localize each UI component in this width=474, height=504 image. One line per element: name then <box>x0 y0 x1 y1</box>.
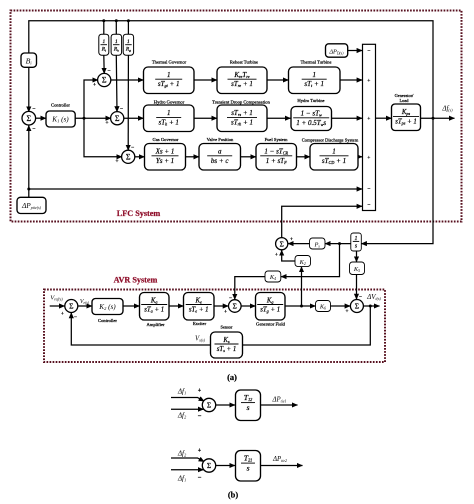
wire droop tap to 1/Rt <box>103 21 105 34</box>
svg-text:sTe + 1: sTe + 1 <box>189 307 209 314</box>
wire Generator Field to K6 <box>285 305 316 307</box>
wire Exciter to field summer <box>214 305 228 307</box>
svg-text:Ys + 1: Ys + 1 <box>156 157 174 165</box>
Thermal Governor <box>144 67 195 94</box>
svg-text:Σ: Σ <box>280 239 284 248</box>
svg-text:Gas Governor: Gas Governor <box>153 137 179 142</box>
Gas Governor <box>145 144 186 171</box>
wire thermal summer to Thermal Governor <box>110 79 143 81</box>
Sensor <box>211 332 243 358</box>
wire Thermal Governor to Reheat Turbine <box>194 79 217 81</box>
wire T12 output dPtie1 <box>261 404 298 406</box>
wire tie-line feedback to power summing block <box>27 188 362 191</box>
svg-text:−: − <box>107 69 110 75</box>
wire terminal voltage summer to dV output <box>363 305 379 308</box>
wire droop tap to 1/Rg <box>127 21 129 34</box>
wire top frequency feedback from output node to B_i and droop taps <box>29 19 433 118</box>
terminal voltage summer <box>350 300 363 313</box>
svg-text:1: 1 <box>167 71 171 79</box>
wire 1/s to Ps <box>325 242 351 245</box>
svg-text:sTre + 1: sTre + 1 <box>231 80 253 88</box>
synchronizing coefficient Ps <box>310 238 326 249</box>
Reheat Turbine <box>217 67 267 94</box>
svg-text:Σ: Σ <box>207 461 211 470</box>
svg-text:−: − <box>367 49 370 55</box>
svg-text:Σ: Σ <box>207 401 211 410</box>
Compressor Discharge System <box>310 144 358 171</box>
Transient Droop Compensation <box>217 105 267 132</box>
svg-text:sTps + 1: sTps + 1 <box>395 118 417 125</box>
svg-text:+: + <box>367 155 370 161</box>
svg-text:1: 1 <box>312 71 316 79</box>
summer gas <box>122 150 135 163</box>
svg-text:1 − sTw: 1 − sTw <box>301 110 322 118</box>
wire tie summer to T21 block <box>216 465 235 467</box>
wire tie summer to T12 block <box>216 404 235 406</box>
svg-text:Reheat Turbine: Reheat Turbine <box>230 60 258 65</box>
droop gain 1/Rh <box>111 34 122 55</box>
svg-text:+: + <box>105 120 108 126</box>
coupling gain K4 <box>265 271 281 282</box>
svg-text:−: − <box>131 145 134 151</box>
wire K2 to coupling summer <box>282 250 295 261</box>
wire df1 into tie summer (b) <box>171 469 204 471</box>
svg-text:Xs + 1: Xs + 1 <box>155 148 175 156</box>
svg-text:sTh + 1: sTh + 1 <box>158 118 178 126</box>
svg-text:1: 1 <box>332 148 336 156</box>
wire controller branch up to thermal summer <box>84 80 98 118</box>
svg-text:−: − <box>120 107 123 113</box>
svg-text:sTa + 1: sTa + 1 <box>144 307 164 314</box>
svg-text:AVR System: AVR System <box>114 276 158 285</box>
Fuel System <box>256 144 297 171</box>
LFC System dashed boundary <box>11 11 462 222</box>
Generator/Load <box>392 104 421 131</box>
wire df2 into tie summer (b) <box>171 458 204 462</box>
svg-text:−: − <box>367 202 370 208</box>
wire 1/s to K5 <box>356 251 358 262</box>
wire tie-line feedback riser to S1 <box>28 125 30 189</box>
wire B_i to summer S1 <box>28 67 30 112</box>
svg-text:+: + <box>93 82 96 88</box>
wire AVR feedback to Sensor <box>243 306 371 345</box>
svg-text:1 + sTF: 1 + sTF <box>266 157 287 165</box>
svg-text:s: s <box>246 403 249 412</box>
droop gain 1/Rt <box>99 34 109 55</box>
wire df feedback down to 1/s integrator <box>361 118 433 243</box>
svg-text:Σ: Σ <box>69 302 73 311</box>
wire delta to K4 <box>281 244 340 277</box>
tie summer (b) <box>202 459 215 472</box>
summer hydro <box>111 112 124 125</box>
wire Amplifier to Exciter <box>169 305 184 307</box>
svg-text:1: 1 <box>355 236 358 242</box>
svg-text:+: + <box>115 159 118 165</box>
svg-text:sTt + 1: sTt + 1 <box>304 80 324 88</box>
wire K6 to terminal voltage summer <box>331 305 351 307</box>
wire K5 to terminal voltage summer <box>356 275 358 300</box>
svg-text:Hydro Turbine: Hydro Turbine <box>297 98 324 103</box>
svg-text:Generator Field: Generator Field <box>256 322 286 327</box>
wire field flux node to K2 <box>300 267 303 308</box>
svg-text:−: − <box>367 187 370 193</box>
wire K4 to AVR field summer <box>235 277 265 300</box>
svg-text:+: + <box>290 237 293 243</box>
wire Sensor to AVR summer <box>71 313 210 345</box>
svg-text:Vs(s): Vs(s) <box>195 336 206 343</box>
AVR error summer <box>65 300 78 313</box>
svg-text:Fuel System: Fuel System <box>265 137 288 142</box>
svg-text:sTgt + 1: sTgt + 1 <box>158 80 180 88</box>
svg-text:Controller: Controller <box>51 103 70 108</box>
svg-text:Thermal Governor: Thermal Governor <box>152 60 187 65</box>
wire hydro summer to Hydro Governor <box>123 117 143 119</box>
wire coupling summer to power summing block <box>282 206 363 238</box>
wire df1 into tie summer (a) <box>171 398 204 402</box>
svg-text:bs + c: bs + c <box>211 157 229 165</box>
svg-text:Controller: Controller <box>98 318 117 323</box>
svg-text:Σ: Σ <box>115 114 120 123</box>
coupling gain K5 <box>350 262 365 275</box>
svg-text:Ke: Ke <box>194 297 202 304</box>
controller K1(s) <box>46 111 75 127</box>
svg-text:sTCD + 1: sTCD + 1 <box>322 157 346 165</box>
svg-text:sTrh + 1: sTrh + 1 <box>231 118 253 126</box>
coupling summer (electrical power) <box>276 238 288 250</box>
gain block Bi <box>21 53 37 67</box>
svg-text:Kg: Kg <box>266 297 274 304</box>
wire Valve Position to Fuel System <box>241 156 257 158</box>
wire Generator/Load output to df <box>421 117 455 120</box>
power summing block (vertical) <box>363 44 376 210</box>
load disturbance dPD(s) <box>326 44 348 57</box>
svg-text:Ve(s): Ve(s) <box>80 299 90 305</box>
wire field summer to Generator Field <box>241 305 255 307</box>
summer S1 (ACE) <box>22 111 36 125</box>
svg-text:a: a <box>218 148 222 156</box>
Thermal Turbine <box>289 67 341 94</box>
svg-text:+: + <box>275 252 278 258</box>
svg-text:sTrs + 1: sTrs + 1 <box>231 109 253 117</box>
wire Compressor Discharge System to power summing block <box>358 156 362 158</box>
svg-text:−: − <box>32 107 35 113</box>
svg-text:Transient Droop Compensation: Transient Droop Compensation <box>212 99 270 104</box>
wire Hydro Governor to Transient Droop Compensation <box>194 117 217 119</box>
svg-text:Ka: Ka <box>150 297 158 304</box>
svg-text:+: + <box>198 388 202 394</box>
coupling gain K6 <box>316 301 331 312</box>
svg-text:sTg + 1: sTg + 1 <box>260 307 280 314</box>
svg-text:Vref(s): Vref(s) <box>50 294 63 301</box>
svg-text:+: + <box>61 311 64 317</box>
wire Ps to coupling summer <box>288 243 310 245</box>
Hydro Turbine <box>291 107 332 131</box>
tie summer (a) <box>202 398 215 411</box>
wire controller branch down to gas summer <box>84 118 122 157</box>
wire Reheat Turbine to Thermal Turbine <box>267 79 289 81</box>
tie-line block T21/s <box>236 451 261 482</box>
svg-text:s: s <box>246 464 249 473</box>
svg-text:Thermal Turbine: Thermal Turbine <box>300 60 331 65</box>
svg-text:−: − <box>198 475 202 482</box>
wire Hydro Turbine to power summing block <box>332 117 363 119</box>
wire Fuel System to Compressor Discharge System <box>297 156 311 158</box>
svg-text:Rh: Rh <box>113 47 119 53</box>
svg-text:Σ: Σ <box>26 114 31 123</box>
Generator Field <box>256 293 286 321</box>
wire controller K1 output to hydro summer <box>75 117 111 120</box>
Valve Position <box>199 144 241 171</box>
svg-text:(b): (b) <box>228 491 238 500</box>
Hydro Governor <box>144 105 195 132</box>
wire Transient Droop Compensation to Hydro Turbine <box>267 117 291 119</box>
svg-text:Amplifier: Amplifier <box>146 322 165 327</box>
svg-text:Kps: Kps <box>401 109 411 116</box>
coupling gain K2 <box>295 256 311 267</box>
svg-text:+: + <box>346 309 349 315</box>
svg-text:Rg: Rg <box>125 47 131 53</box>
svg-text:−: − <box>74 315 77 321</box>
svg-text:Σ: Σ <box>233 302 237 311</box>
wire controller K2 to Amplifier <box>123 305 140 307</box>
wire dPtie block stem <box>28 189 30 197</box>
wire gas summer to Gas Governor <box>134 156 144 158</box>
svg-text:−: − <box>32 127 35 133</box>
wire Thermal Turbine to power summing block <box>340 79 362 81</box>
wire Gas Governor to Valve Position <box>186 156 200 158</box>
svg-text:−: − <box>359 294 362 300</box>
svg-text:Valve Position: Valve Position <box>207 137 234 142</box>
svg-text:Σ: Σ <box>355 302 359 311</box>
svg-text:+: + <box>198 448 202 454</box>
Exciter <box>184 293 215 321</box>
droop gain 1/Rg <box>123 34 133 55</box>
svg-text:LFC System: LFC System <box>117 209 161 218</box>
wire S1 to controller K1 <box>36 117 46 119</box>
wire droop tap to 1/Rh <box>115 21 117 34</box>
svg-text:+: + <box>367 78 370 84</box>
wire 1/Rt output to thermal summer <box>103 55 105 73</box>
wire power summing block to Generator/Load <box>376 117 392 119</box>
tie-line block T12/s <box>236 390 261 421</box>
wire 1/Rg output to gas summer <box>127 55 129 150</box>
svg-text:Σ: Σ <box>102 76 107 85</box>
svg-text:−: − <box>198 413 202 420</box>
tie-line power deviation dPtie(s) <box>17 197 46 213</box>
wire T21 output dPtie2 <box>261 465 303 467</box>
svg-text:Exciter: Exciter <box>193 321 207 326</box>
summer thermal <box>98 73 111 86</box>
svg-text:Σ: Σ <box>126 152 131 161</box>
svg-text:Hydro Governor: Hydro Governor <box>154 99 185 104</box>
AVR System dashed boundary <box>44 290 385 363</box>
svg-text:sTs + 1: sTs + 1 <box>217 346 236 353</box>
svg-text:Ks: Ks <box>222 337 230 344</box>
Amplifier <box>140 293 170 321</box>
wire AVR summer to controller K2 <box>78 305 92 307</box>
svg-text:Load: Load <box>399 98 409 103</box>
wire df2 into tie summer (a) <box>171 408 204 410</box>
wire 1/Rh output to hydro summer <box>115 55 118 112</box>
svg-text:Sensor: Sensor <box>221 324 233 329</box>
svg-text:Compressor Discharge System: Compressor Discharge System <box>302 138 359 143</box>
wire load disturbance dPD to power summing block <box>348 50 363 52</box>
svg-text:+: + <box>367 116 370 122</box>
svg-text:1: 1 <box>167 109 171 117</box>
integrator 1/s <box>351 233 362 251</box>
svg-text:Rt: Rt <box>101 47 106 53</box>
field summer <box>229 300 242 313</box>
svg-text:+: + <box>224 309 227 315</box>
controller K2(s) <box>92 299 123 315</box>
svg-text:K1 (s): K1 (s) <box>51 116 69 124</box>
svg-text:(a): (a) <box>227 373 237 382</box>
wire Vref input to AVR summer <box>50 305 65 307</box>
svg-text:K2 (s): K2 (s) <box>98 303 116 311</box>
